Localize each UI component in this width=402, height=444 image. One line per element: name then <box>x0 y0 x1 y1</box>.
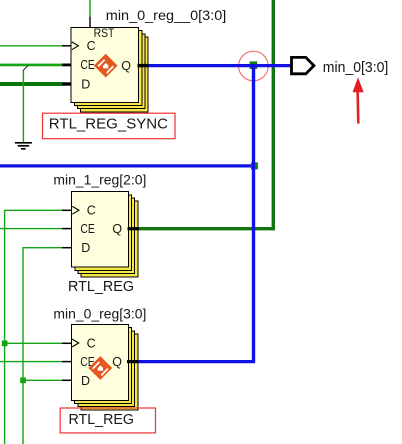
red annotation arrow <box>353 77 364 123</box>
output port min_0[3:0] <box>292 57 314 73</box>
wire: D bus to U1 (dark green thick) <box>0 82 62 86</box>
wire: bottom C tap <box>5 342 62 344</box>
red highlight box RTL_REG (bottom) <box>60 408 155 433</box>
front body <box>71 28 139 103</box>
stack layers <box>81 201 138 277</box>
svg-text:min_0_reg__0[3:0]: min_0_reg__0[3:0] <box>106 8 227 23</box>
svg-text:Q: Q <box>112 222 122 236</box>
svg-text:D: D <box>81 241 90 255</box>
wire: CE net to U1 (green) <box>0 64 62 67</box>
wire: green bus from U2 Q up to top edge <box>139 227 275 230</box>
ground symbol <box>15 143 32 149</box>
red annotation circle at node <box>239 51 269 81</box>
pin stub C <box>62 209 72 211</box>
register U1 min_0_reg__0 (RTL_REG_SYNC) <box>62 28 148 112</box>
svg-text:RST: RST <box>94 28 115 40</box>
pin C clock chevron <box>72 206 79 214</box>
pin stub D <box>62 82 71 85</box>
junction square bottom C tap <box>2 341 8 347</box>
stack layers <box>81 37 149 112</box>
svg-text:D: D <box>81 374 90 388</box>
wire: C input net to U1 (thin green) <box>0 45 62 47</box>
pin stub CE <box>62 361 72 363</box>
pin stub CE <box>62 228 72 230</box>
svg-text:C: C <box>87 39 96 53</box>
junction square at blue bus node (253.4,65.3) <box>250 61 258 69</box>
pin stub CE <box>62 64 71 67</box>
pin stub Q <box>138 64 149 67</box>
junction square bottom D tap <box>20 378 26 384</box>
svg-text:Q: Q <box>112 355 122 369</box>
wire: middle D net vertical x=23 <box>23 248 62 444</box>
pin C clock chevron <box>72 339 79 347</box>
svg-text:RTL_REG_SYNC: RTL_REG_SYNC <box>49 117 168 133</box>
svg-text:min_0[3:0]: min_0[3:0] <box>323 59 389 76</box>
svg-text:D: D <box>81 77 90 91</box>
pin stub C <box>62 342 72 344</box>
wire: blue bus vertical x=253.5 <box>252 66 255 362</box>
pin stub D <box>62 247 72 249</box>
junction nub at U1 Q <box>147 64 150 67</box>
wire: RST net vertical at top (green) <box>89 0 91 17</box>
svg-text:min_0_reg[3:0]: min_0_reg[3:0] <box>53 307 146 322</box>
wire: blue bus horizontal mid (net min_0 feedback) <box>0 164 255 167</box>
junction square at blue bus node (253.4,165.9) <box>251 162 258 169</box>
wire: vertical drop from CE net to ground <box>22 70 24 142</box>
pin stub Q <box>127 360 139 363</box>
wire: blue bus from U3 Q to vertical <box>139 360 256 363</box>
svg-text:RTL_REG: RTL_REG <box>68 279 134 295</box>
orange SRL diamond icon <box>94 54 118 78</box>
stack layers <box>81 334 138 410</box>
orange SRL diamond icon <box>88 356 112 380</box>
pin stub C <box>62 45 71 47</box>
wire: bottom D tap <box>23 379 62 381</box>
svg-text:Q: Q <box>121 59 131 73</box>
pin C clock chevron <box>72 42 79 50</box>
register U2 min_1_reg (RTL_REG) <box>62 192 139 277</box>
red highlight box RTL_REG_SYNC <box>43 113 176 139</box>
svg-text:RTL_REG: RTL_REG <box>69 412 135 428</box>
register U3 min_0_reg (RTL_REG) <box>62 325 139 410</box>
pin stub Q <box>128 227 140 230</box>
wire: blue bus from U1 Q to output port <box>148 64 292 67</box>
svg-text:C: C <box>87 204 96 218</box>
wire: bottom CE net <box>0 361 62 363</box>
pin stub: RST (black) <box>89 17 91 28</box>
svg-text:CE: CE <box>80 222 95 236</box>
wire: middle C net vertical x=4.6 <box>5 210 62 444</box>
pin stub D <box>62 379 72 381</box>
wire: diagonal jog joining CE net <box>23 65 28 70</box>
wire: middle CE net <box>0 228 62 230</box>
front body <box>72 192 129 268</box>
svg-text:CE: CE <box>80 58 95 72</box>
front body <box>72 325 129 401</box>
svg-text:min_1_reg[2:0]: min_1_reg[2:0] <box>53 172 146 187</box>
svg-text:C: C <box>87 336 96 350</box>
